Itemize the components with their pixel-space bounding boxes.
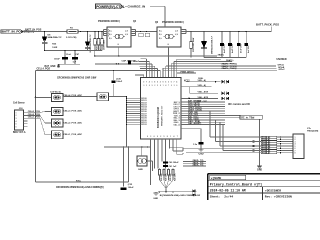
svg-text:4u7F 16V: 4u7F 16V	[223, 44, 226, 53]
svg-text:7: 7	[177, 136, 178, 138]
svg-text:CELL4_POS: CELL4_POS	[37, 68, 51, 71]
svg-text:0: 0	[143, 85, 144, 87]
svg-text:7: 7	[146, 82, 147, 84]
svg-text:3-12V-CB): 3-12V-CB)	[66, 37, 77, 39]
svg-text:Primary_Control_Board v]T]: Primary_Control_Board v]T]	[210, 182, 262, 187]
svg-text:GAL_ALERT): GAL_ALERT)	[188, 122, 201, 125]
svg-text:6: 6	[149, 85, 150, 87]
svg-text:0: 0	[147, 136, 148, 138]
svg-text:ZBATL): ZBATL)	[226, 59, 234, 62]
svg-text:BO8-YOY-A: BO8-YOY-A	[13, 131, 26, 134]
svg-text:1: 1	[152, 82, 153, 84]
svg-text:2: 2	[16, 115, 17, 117]
svg-text:R30 10K: R30 10K	[165, 173, 167, 181]
svg-text:9: 9	[163, 82, 164, 84]
svg-text:GAL_A: GAL_A	[173, 123, 180, 126]
svg-text:100R: 100R	[52, 47, 57, 49]
svg-text:ZBAT): ZBAT)	[218, 53, 224, 56]
svg-text:1.5u: 1.5u	[193, 144, 198, 146]
svg-text:3: 3	[150, 136, 151, 138]
svg-text:CRCW0805L05M6FKEAS(+GND-COMMS): CRCW0805L05M6FKEAS(+GND-COMMS)[5]	[56, 186, 104, 189]
svg-text:7: 7	[168, 85, 169, 87]
svg-text:Sheet: 2s/44: Sheet: 2s/44	[210, 195, 234, 199]
svg-text:MCU2: MCU2	[141, 124, 146, 126]
svg-text:TMU(4-5M): TMU(4-5M)	[307, 130, 318, 133]
svg-text:MBRD250-60B-7-F: MBRD250-60B-7-F	[90, 34, 92, 53]
svg-text:6: 6	[165, 82, 166, 84]
svg-text:8: 8	[295, 153, 296, 155]
svg-text:+DESIGNER: +DESIGNER	[265, 189, 281, 192]
svg-text:BCM540C0-QFN48: BCM540C0-QFN48	[157, 106, 160, 128]
svg-text:CELL3_POS_ADC: CELL3_POS_ADC	[63, 110, 82, 113]
svg-text:CRCW0805L05M6FKEAS 100R 1/8W: CRCW0805L05M6FKEAS 100R 1/8W	[57, 77, 97, 80]
svg-text:0: 0	[171, 85, 172, 87]
svg-text:GND: GND	[257, 170, 262, 172]
svg-text:3: 3	[168, 82, 169, 84]
svg-text:Cell Works: Cell Works	[50, 91, 62, 93]
svg-text:2: 2	[160, 136, 161, 138]
svg-text:Rev: +CREVISION: Rev: +CREVISION	[265, 196, 292, 199]
svg-text:ZBATL_TX): ZBATL_TX)	[193, 164, 204, 167]
svg-text:100R 1/8W: 100R 1/8W	[104, 40, 106, 50]
svg-text:Cell Sense: Cell Sense	[13, 103, 25, 105]
svg-text:5: 5	[164, 136, 165, 138]
svg-text:R30 10K: R30 10K	[170, 173, 172, 181]
svg-text:8: 8	[154, 82, 155, 84]
svg-text:GND: GND	[198, 153, 203, 155]
svg-text:2: 2	[160, 82, 161, 84]
svg-text:SMAJ58A-T-F: SMAJ58A-T-F	[48, 36, 63, 39]
svg-text:J?b: J?b	[307, 128, 312, 130]
svg-text:R30 10K: R30 10K	[174, 173, 176, 181]
svg-text:100uF: 100uF	[54, 58, 61, 60]
svg-text:MBRD250-60B-7-F: MBRD250-60B-7-F	[212, 35, 214, 54]
svg-text:2: 2	[154, 85, 155, 87]
svg-text:1: 1	[16, 112, 17, 114]
svg-text:PRIMARY_MCU_U7: PRIMARY_MCU_U7	[161, 105, 164, 126]
svg-text:GND: GND	[153, 198, 158, 200]
svg-text:4: 4	[173, 135, 174, 138]
svg-text:6: 6	[154, 136, 155, 138]
svg-text:POWER(5V)-CTRL: POWER(5V)-CTRL	[96, 5, 125, 9]
svg-text:3: 3	[16, 118, 17, 120]
svg-text:100nF: 100nF	[116, 81, 123, 83]
svg-text:5: 5	[16, 124, 17, 126]
svg-text:4u7 50V: 4u7 50V	[247, 45, 250, 53]
svg-text:100nF: 100nF	[133, 61, 140, 63]
svg-text:3: 3	[146, 85, 147, 87]
svg-text:0: 0	[143, 82, 144, 84]
svg-text:100nF: 100nF	[128, 187, 135, 189]
svg-text:R08L: R08L	[198, 78, 204, 80]
svg-text:47uF 25V: 47uF 25V	[240, 44, 243, 53]
svg-text:5: 5	[157, 85, 158, 87]
svg-text:1: 1	[170, 136, 171, 138]
svg-text:CELL2_POS_ADC: CELL2_POS_ADC	[63, 121, 82, 124]
svg-text:4: 4	[176, 81, 177, 84]
svg-text:I2C comms and IO: I2C comms and IO	[228, 103, 250, 106]
svg-text:4: 4	[165, 84, 166, 87]
svg-text:1: 1	[163, 85, 164, 87]
svg-text:8: 8	[160, 85, 161, 87]
svg-text:0: 0	[171, 82, 172, 84]
svg-text:BQ76940EVM-USB(+GND-COMMS)_LOW: BQ76940EVM-USB(+GND-COMMS)_LOW	[160, 194, 200, 197]
svg-text:R30 10K: R30 10K	[161, 173, 163, 181]
svg-text:PWM_AHS1): PWM_AHS1)	[181, 70, 194, 73]
svg-text:CELL1_POS_ADC: CELL1_POS_ADC	[63, 133, 82, 136]
svg-text:8: 8	[167, 136, 168, 138]
svg-text:CHARGE_IN: CHARGE_IN	[128, 5, 146, 9]
svg-text:BATT_IN_POS: BATT_IN_POS	[25, 29, 42, 32]
svg-text:4: 4	[16, 120, 17, 123]
svg-text:UNUSED: UNUSED	[277, 58, 287, 61]
svg-text:PSW40RD-1000SC): PSW40RD-1000SC)	[98, 20, 120, 23]
svg-text:v{NAME: v{NAME	[211, 176, 222, 180]
svg-text:9: 9	[157, 136, 158, 138]
svg-text:C60 100nF: C60 100nF	[169, 162, 180, 164]
svg-text:4: 4	[149, 81, 150, 84]
svg-text:C61 1uF: C61 1uF	[169, 166, 178, 168]
svg-text:9: 9	[152, 85, 153, 87]
svg-text:6: 6	[16, 126, 17, 128]
svg-text:2024-02-05 11:10 AM: 2024-02-05 11:10 AM	[210, 188, 246, 192]
svg-text:3: 3	[174, 85, 175, 87]
svg-text:7: 7	[174, 82, 175, 84]
svg-text:5: 5	[157, 82, 158, 84]
svg-text:PO3B-A7: PO3B-A7	[262, 152, 270, 155]
svg-text:I2C_to_TBal: I2C_to_TBal	[241, 117, 255, 120]
svg-text:GPIxC: GPIxC	[279, 69, 286, 71]
svg-text:4u7F 16V: 4u7F 16V	[231, 44, 234, 53]
svg-text:GND: GND	[138, 169, 143, 171]
svg-text:6: 6	[176, 85, 177, 87]
svg-text:R23 100R 1/8W: R23 100R 1/8W	[193, 38, 195, 52]
svg-text:BATT_PACK_POS: BATT_PACK_POS	[256, 23, 279, 27]
svg-text:ZBATL_PSNS): ZBATL_PSNS)	[222, 67, 237, 70]
